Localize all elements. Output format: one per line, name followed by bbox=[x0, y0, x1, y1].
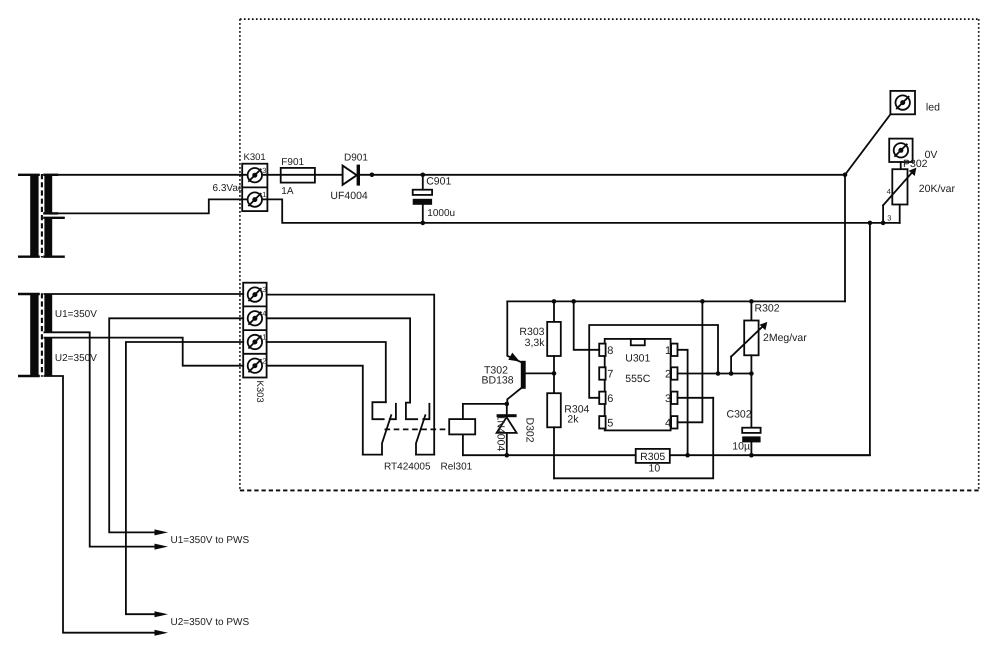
contact 2 moving arm bbox=[416, 415, 425, 454]
TR1 secondary winding 2 bar bbox=[44, 217, 52, 257]
TR1 secondary winding 1 bottom tap bbox=[44, 212, 57, 214]
svg-text:U1=350V: U1=350V bbox=[55, 309, 97, 320]
svg-text:6.3Vac: 6.3Vac bbox=[213, 183, 243, 194]
U301 pin 7 box bbox=[599, 367, 605, 379]
junction dot R302 wiper/pin2 bbox=[729, 371, 734, 376]
wiper lead down to return rail bbox=[882, 205, 884, 223]
svg-text:R302: R302 bbox=[755, 303, 780, 315]
wire: pin 8 to Vcc rail bbox=[574, 301, 600, 349]
svg-text:1: 1 bbox=[262, 190, 266, 199]
wire: K301 pin1 to lower return rail bbox=[255, 199, 900, 223]
svg-text:U2=350V to PWS: U2=350V to PWS bbox=[171, 617, 250, 628]
wire: K303 screw 3 to relay contact 2 fixed side bbox=[267, 295, 435, 455]
svg-text:C302: C302 bbox=[727, 409, 752, 421]
wire: pin 3 to output loop bbox=[678, 397, 714, 399]
op IC U301 555C bbox=[599, 339, 677, 431]
transformer TR1 (6.3V heater transformer, top left) bbox=[19, 174, 63, 258]
wire from top rail down bbox=[422, 175, 424, 190]
junction dot R302/Vcc rail bbox=[749, 299, 754, 304]
resistor R305 10 bbox=[636, 449, 670, 475]
svg-text:4: 4 bbox=[887, 187, 891, 196]
C901 negative plate bbox=[413, 199, 432, 205]
svg-text:UF4004: UF4004 bbox=[330, 190, 368, 202]
lead from collector node bbox=[506, 404, 508, 415]
wire: D901 cathode to top node bbox=[360, 174, 845, 176]
svg-text:6: 6 bbox=[607, 393, 613, 405]
TR2 primary top lead stub bbox=[19, 293, 38, 295]
junction dot bottom bbox=[421, 221, 426, 226]
capacitor C901 1000u bbox=[413, 173, 455, 226]
arrow U2 feed b bbox=[155, 630, 169, 636]
coil top lead to T302 collector node bbox=[463, 404, 507, 419]
Vcc rail (555 supply) bbox=[507, 300, 845, 302]
coil bottom lead to ground rail bbox=[462, 434, 464, 455]
svg-text:RT424005: RT424005 bbox=[384, 462, 431, 473]
svg-text:3: 3 bbox=[262, 285, 266, 294]
pot bottom lead to return rail bbox=[899, 205, 901, 223]
diode D901 UF4004 bbox=[330, 153, 368, 202]
junction dot top bbox=[421, 173, 426, 178]
TR2 secondary winding 2 bar (U2) bbox=[44, 337, 52, 376]
junction dot D302/ground rail bbox=[505, 453, 510, 458]
wire: TR2 sec1 bottom to U1 PWS arrow bbox=[44, 332, 156, 546]
C901 positive plate bbox=[413, 190, 432, 195]
K303 outline bbox=[243, 283, 266, 378]
svg-text:3: 3 bbox=[262, 166, 266, 175]
svg-text:3,3k: 3,3k bbox=[525, 337, 546, 349]
svg-text:4: 4 bbox=[665, 417, 671, 429]
contact 1 bottom wire bbox=[363, 454, 382, 456]
junction dot R302 bottom/pin2 bbox=[749, 371, 754, 376]
svg-text:R305: R305 bbox=[640, 451, 665, 463]
transistor T302 BD138 bbox=[482, 301, 555, 404]
svg-text:555C: 555C bbox=[625, 373, 651, 385]
relay contact 1 (Rel301 pole A) bbox=[363, 402, 396, 454]
TR1 secondary winding 1 top tap bbox=[44, 174, 57, 176]
svg-text:P302: P302 bbox=[903, 158, 928, 170]
wire: K303 screw 1 to U2 PWS arrow bbox=[126, 342, 243, 614]
svg-text:C901: C901 bbox=[426, 176, 451, 188]
junction dot pin8/Vcc bbox=[571, 299, 576, 304]
U301 pin 8 box bbox=[599, 344, 605, 356]
relay coil Rel301 bbox=[449, 404, 507, 455]
junction dot C302/ground rail bbox=[749, 453, 754, 458]
svg-text:8: 8 bbox=[607, 345, 613, 357]
wire terminal box to pot bbox=[900, 162, 902, 169]
junction node at top-right rail bbox=[843, 173, 848, 178]
svg-text:1A: 1A bbox=[281, 186, 294, 197]
svg-text:1000u: 1000u bbox=[427, 208, 455, 219]
wire: pin 4 to Vcc rail bbox=[678, 301, 703, 422]
svg-text:1N4004: 1N4004 bbox=[495, 415, 507, 452]
wire: TR1 6.3V return lead to K301 pin1 bbox=[52, 199, 255, 213]
svg-text:10µ: 10µ bbox=[732, 441, 750, 453]
TR1 primary bottom lead stub bbox=[19, 256, 38, 258]
svg-text:K303: K303 bbox=[254, 381, 265, 403]
wire: pin 6 wrap to pin 2 node bbox=[589, 325, 718, 398]
arrow U1 feed a bbox=[155, 529, 169, 535]
bottom lead down to C302 bbox=[750, 355, 752, 427]
K301 screw 3 bbox=[248, 168, 262, 182]
U301 pin 6 box bbox=[599, 392, 605, 404]
anode triangle bbox=[497, 417, 517, 433]
junction dot R303/Vcc rail bbox=[552, 299, 557, 304]
wire: K303 screw 4 to U1 PWS arrow bbox=[109, 318, 243, 532]
screw terminal P302 (0V) bbox=[889, 139, 937, 170]
wire: vertical drop to 555 Vcc rail bbox=[844, 175, 846, 302]
U301 pin 3 box bbox=[671, 392, 677, 404]
svg-text:K301: K301 bbox=[244, 152, 266, 163]
transformer TR2 (350V anode transformer, bottom left) bbox=[19, 293, 97, 377]
arrow U2 feed a bbox=[155, 611, 169, 617]
svg-text:led: led bbox=[926, 101, 940, 113]
K301 outline bbox=[242, 164, 267, 211]
fuse F901 1A bbox=[281, 157, 315, 197]
base bar bbox=[521, 361, 526, 389]
K303 screw 1 bbox=[248, 335, 262, 349]
base lead bbox=[526, 372, 554, 374]
junction dot collector node bbox=[505, 402, 510, 407]
relay contact 2 (Rel301 pole B) bbox=[406, 403, 434, 455]
wire: K303 screw 4 to relay contact 2 cup bbox=[267, 318, 411, 402]
TR1 secondary winding 2 top tap (unconnected) bbox=[44, 217, 63, 219]
svg-text:1: 1 bbox=[262, 333, 266, 342]
contact 2 bottom wire bbox=[416, 454, 434, 456]
U301 pin 2 box bbox=[671, 367, 677, 379]
K303 screw 2 bbox=[248, 359, 262, 373]
U301 body bbox=[605, 339, 671, 431]
TR2 primary bottom lead stub bbox=[19, 375, 38, 377]
svg-text:7: 7 bbox=[607, 369, 613, 381]
U301 pin 1 box bbox=[671, 344, 677, 356]
terminal block K301 bbox=[242, 152, 267, 211]
wire: TR2 sec1 top to K303 screw 3 bbox=[44, 293, 243, 295]
svg-text:5: 5 bbox=[607, 417, 613, 429]
junction dot pin1/ground bbox=[685, 453, 690, 458]
arrow U1 feed b bbox=[155, 544, 169, 550]
resistor R303 3,3k bbox=[519, 301, 560, 373]
wire: K303 screw 1 to relay contact 1 cup bbox=[267, 342, 386, 402]
svg-text:20K/var: 20K/var bbox=[919, 183, 956, 195]
svg-text:2: 2 bbox=[665, 369, 671, 381]
top lead from Vcc rail bbox=[750, 301, 752, 320]
svg-text:U2=350V: U2=350V bbox=[55, 353, 97, 364]
TR1 core (dashed) bbox=[41, 174, 43, 258]
U301 pin 4 box bbox=[671, 416, 677, 428]
lead to ground rail bbox=[750, 442, 752, 455]
wire: diagonal to led terminal bbox=[845, 114, 890, 175]
emitter lead from Vcc rail bbox=[507, 301, 521, 362]
collector lead bbox=[507, 388, 521, 404]
potentiometer P302 20K/var bbox=[881, 162, 956, 225]
TR1 secondary winding 2 bottom tap (unconnected) bbox=[44, 256, 63, 258]
wiper arrow bbox=[883, 172, 913, 206]
junction dot return rail / ground drop bbox=[868, 221, 873, 226]
wire: pin 1 to ground rail bbox=[678, 350, 688, 455]
capacitor C302 10u bbox=[727, 409, 761, 456]
svg-text:U1=350V to PWS: U1=350V to PWS bbox=[171, 535, 250, 546]
TR2 core (dashed) bbox=[41, 293, 43, 377]
svg-text:3: 3 bbox=[887, 214, 891, 223]
terminal block K303 bbox=[243, 283, 266, 403]
svg-text:2: 2 bbox=[262, 356, 266, 365]
TR1 primary winding bar bbox=[30, 174, 38, 258]
K303 screw 4 bbox=[248, 311, 262, 325]
svg-text:10: 10 bbox=[649, 462, 661, 474]
svg-text:4: 4 bbox=[262, 309, 266, 318]
led screw terminal bbox=[890, 91, 940, 114]
junction dot pin6 wrap/pin2 bbox=[716, 371, 721, 376]
C302 positive plate bbox=[742, 428, 760, 433]
svg-text:1: 1 bbox=[665, 345, 671, 357]
wire: TR2 sec2 top to K303 screw 2 bbox=[44, 338, 243, 366]
svg-text:D901: D901 bbox=[344, 153, 368, 164]
lead to ground rail bbox=[506, 433, 508, 455]
junction dot wiper/return bbox=[881, 221, 886, 226]
svg-text:3: 3 bbox=[665, 393, 671, 405]
wire: K303 screw 2 to relay contact 1 moving side bbox=[267, 366, 363, 455]
contact 2 fixed cup bbox=[406, 403, 417, 420]
junction dot pin4/Vcc bbox=[700, 299, 705, 304]
cathode bar bbox=[497, 414, 517, 417]
K303 screw 3 bbox=[248, 287, 262, 301]
svg-text:U301: U301 bbox=[625, 353, 650, 365]
relay actuator dashed link bbox=[385, 428, 450, 430]
contact 1 fixed cup bbox=[372, 402, 385, 419]
junction dot base node bbox=[552, 371, 557, 376]
C302 negative plate bbox=[742, 436, 760, 442]
U301 pin 5 box bbox=[599, 416, 605, 428]
svg-text:BD138: BD138 bbox=[482, 375, 514, 387]
wiper lead to pin2 node bbox=[730, 357, 732, 374]
TR2 primary winding bar bbox=[30, 293, 38, 377]
wire to return rail bbox=[422, 205, 424, 223]
contact 1 moving arm bbox=[382, 415, 391, 454]
K301 screw 1 bbox=[248, 192, 262, 206]
wire: TR1 6.3V top lead to K301 pin3 / F901 bbox=[52, 174, 343, 176]
svg-text:2Meg/var: 2Meg/var bbox=[763, 332, 807, 344]
wire: pin 2 to R302 bottom bbox=[678, 373, 752, 375]
potentiometer R302 2Meg/var bbox=[731, 301, 807, 427]
ground rail (bottom) bbox=[463, 454, 636, 456]
svg-text:D302: D302 bbox=[524, 418, 536, 443]
svg-text:Rel301: Rel301 bbox=[441, 462, 473, 473]
TR1 secondary winding 1 bar bbox=[44, 174, 52, 213]
svg-text:F901: F901 bbox=[281, 157, 304, 168]
TR2 secondary winding 1 bar (U1) bbox=[44, 294, 52, 333]
TR1 primary top lead stub bbox=[19, 174, 38, 176]
resistor R304 2k bbox=[547, 373, 589, 478]
dashed enclosure border bbox=[240, 18, 979, 20]
wiper arrow bbox=[731, 325, 764, 356]
diode D302 1N4004 (flyback) bbox=[495, 404, 536, 455]
junction dot after D901 bbox=[370, 173, 375, 178]
wire: 555 pin3 output loop to R304 bbox=[554, 398, 713, 479]
svg-text:2k: 2k bbox=[567, 414, 579, 426]
wire: TR2 sec2 bottom to U2 PWS arrow bbox=[44, 376, 156, 633]
emitter arrow bbox=[508, 353, 520, 362]
wire: ground drop right side bbox=[751, 223, 870, 455]
U301 notch bbox=[631, 339, 645, 345]
